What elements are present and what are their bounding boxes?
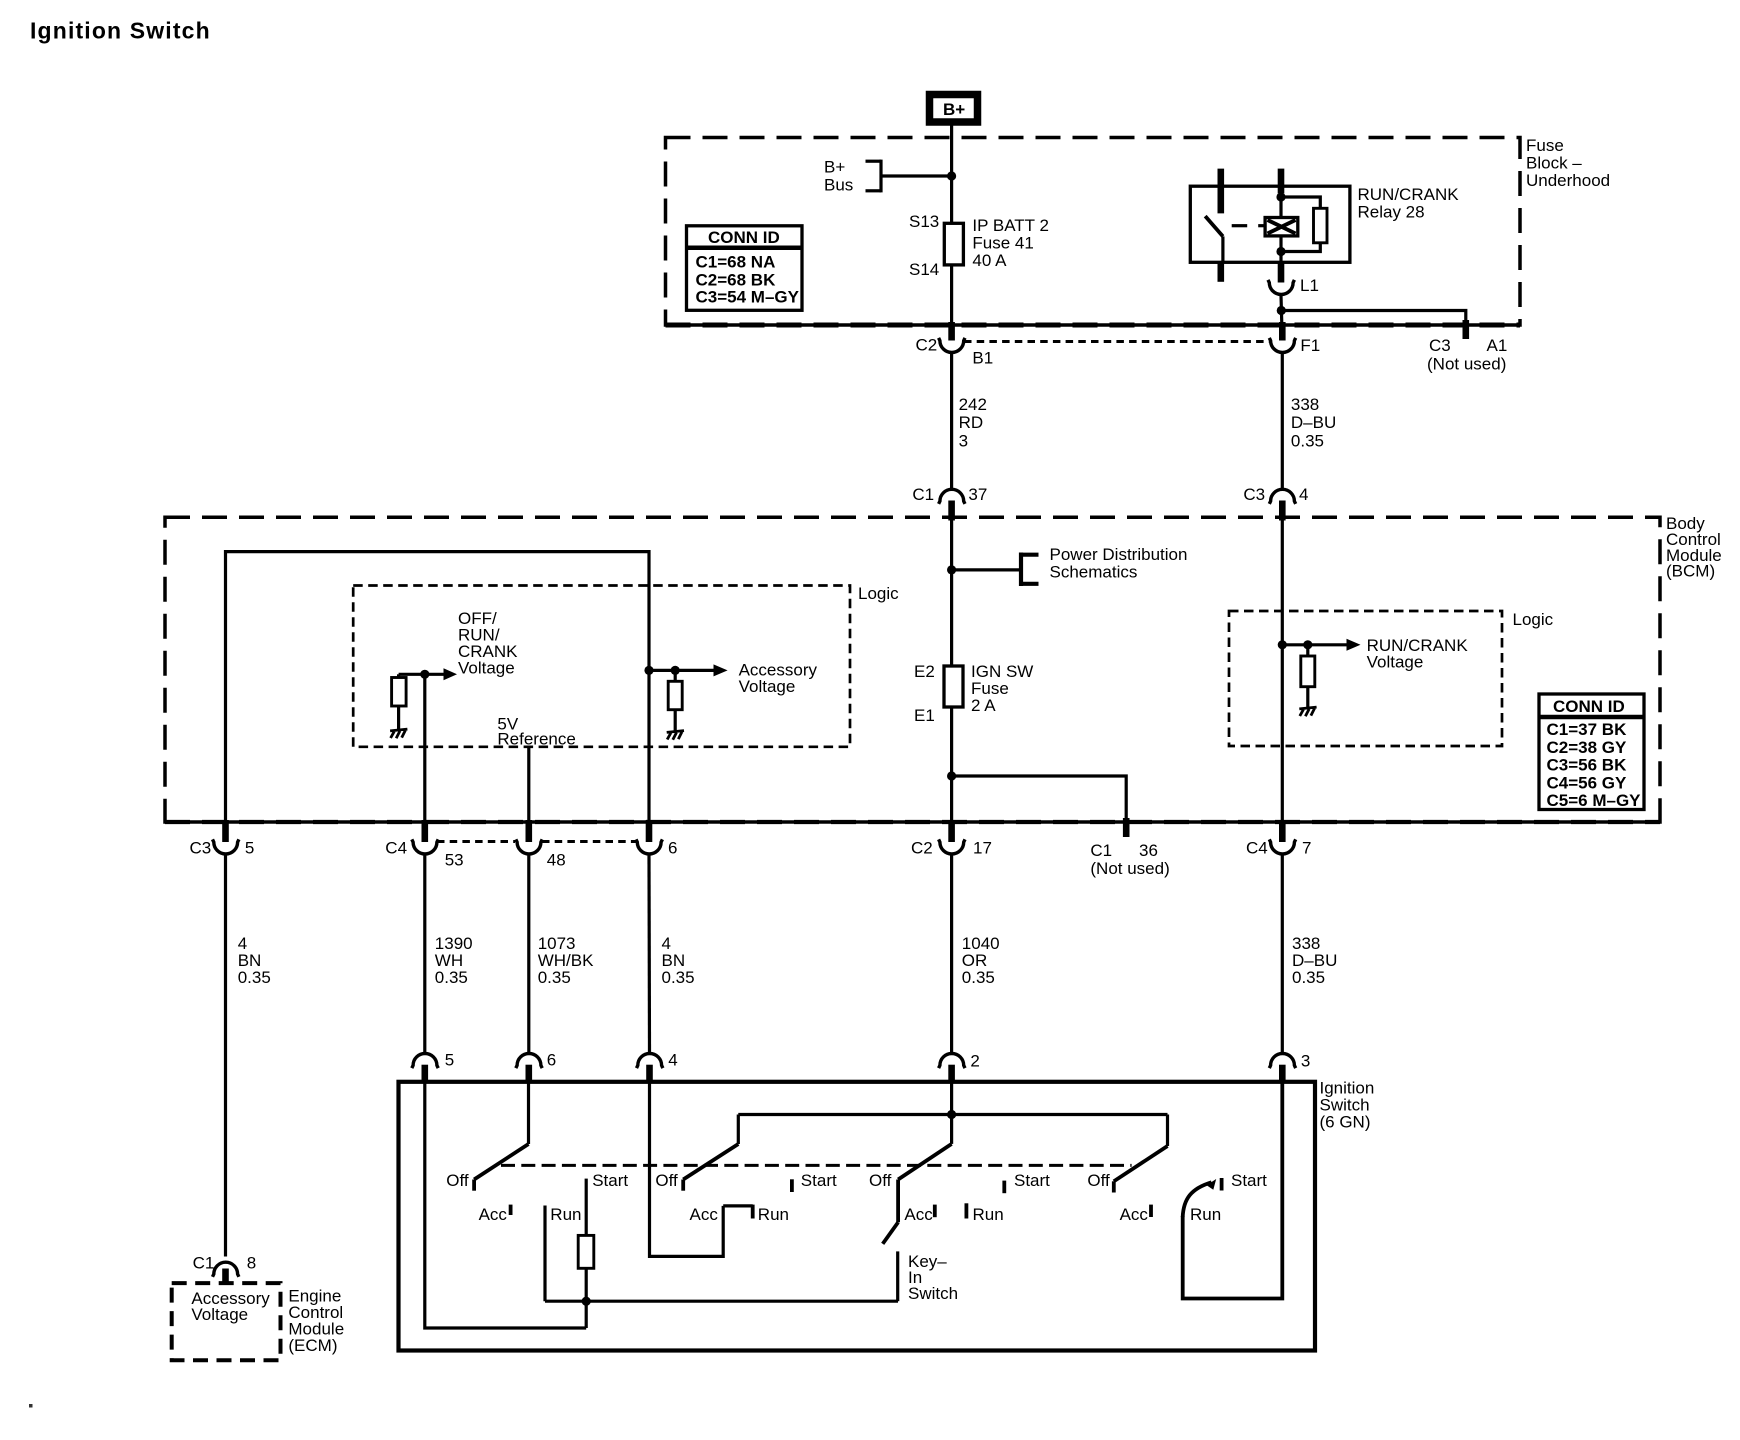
- svg-text:3: 3: [1301, 1052, 1310, 1071]
- wire B+ to fuse S13: [950, 122, 953, 223]
- wire acc2 to run2 jumper: [723, 1204, 753, 1207]
- wire coil top: [1279, 193, 1282, 217]
- connector L1: [1268, 280, 1294, 295]
- svg-text:6: 6: [668, 839, 677, 858]
- pin 6 stub: [646, 820, 653, 842]
- connector 6 dome: [516, 1054, 542, 1069]
- label 338 D-BU 0.35: [1291, 395, 1336, 451]
- svg-text:C2=38 GY: C2=38 GY: [1547, 738, 1628, 757]
- svg-text:Voltage: Voltage: [739, 677, 796, 696]
- svg-text:242: 242: [959, 395, 987, 414]
- connector 2 dome: [939, 1054, 965, 1069]
- svg-text:C2: C2: [916, 336, 938, 355]
- wire to power distribution bracket: [952, 568, 1021, 571]
- contact tick Start 3: [1002, 1181, 1006, 1194]
- svg-text:5: 5: [245, 839, 254, 858]
- wire fuse to C2 connector: [950, 265, 953, 324]
- svg-text:2 A: 2 A: [971, 696, 996, 715]
- power distribution bracket: [1021, 553, 1039, 587]
- relay switch blade: [1205, 216, 1223, 236]
- svg-text:B+: B+: [824, 158, 845, 177]
- svg-text:RD: RD: [959, 413, 984, 432]
- ground accessory: [667, 731, 684, 740]
- node run-crank resistor tap: [1303, 640, 1312, 649]
- svg-text:A1: A1: [1487, 336, 1508, 355]
- pin 8 stub: [222, 1269, 229, 1286]
- fuse F41 IP BATT 2 40A: [944, 223, 963, 265]
- pin C1-8 dome: [213, 1262, 239, 1277]
- svg-text:6: 6: [547, 1051, 556, 1070]
- svg-text:Run: Run: [973, 1205, 1004, 1224]
- connector 4 dome: [637, 1054, 663, 1069]
- connector F1 cup: [1269, 338, 1295, 353]
- svg-text:C4=56 GY: C4=56 GY: [1547, 773, 1628, 792]
- wire 1040 OR: [950, 855, 953, 1053]
- connector C2 cup: [939, 338, 965, 353]
- svg-text:F1: F1: [1300, 336, 1320, 355]
- svg-text:338: 338: [1291, 395, 1319, 414]
- label 338 D-BU 0.35: [1292, 934, 1337, 987]
- switch pivot tick 3: [896, 1180, 900, 1193]
- node A1 branch junction: [1277, 306, 1286, 315]
- label Accessory Voltage: [739, 661, 818, 697]
- body control module BCM box: [165, 517, 1660, 822]
- ground left logic: [390, 729, 407, 738]
- label C1 36 (Not used): [1090, 841, 1169, 878]
- svg-text:Off: Off: [446, 1171, 469, 1190]
- connector 3 dome: [1269, 1054, 1295, 1069]
- wire 242 RD C2 to C1: [950, 354, 953, 489]
- connector C3-5 cup: [213, 839, 239, 854]
- key-in switch lower terminal: [896, 1251, 899, 1301]
- svg-text:Start: Start: [592, 1171, 628, 1190]
- pin 5 stub: [421, 1065, 428, 1083]
- relay coil box: [1265, 218, 1298, 236]
- switch pivot tick 1: [472, 1180, 476, 1191]
- node power distribution junction: [947, 565, 956, 574]
- node run-crank junction: [1278, 640, 1287, 649]
- node sense tap junction: [420, 670, 429, 679]
- node coil bottom junction: [1276, 247, 1285, 256]
- svg-text:Fuse 41: Fuse 41: [972, 234, 1033, 253]
- wire pin5 feed: [425, 1083, 586, 1328]
- svg-text:(Not used): (Not used): [1090, 859, 1169, 878]
- svg-text:36: 36: [1139, 841, 1158, 860]
- conn id table left: [687, 226, 803, 310]
- contact tick Start 4: [1220, 1178, 1224, 1191]
- svg-text:C1: C1: [193, 1254, 215, 1273]
- svg-text:B1: B1: [972, 349, 993, 368]
- connector 5 dome: [412, 1054, 438, 1069]
- resistor pulldown run-crank: [1301, 645, 1315, 708]
- accessory voltage ECM box: [172, 1283, 281, 1360]
- wire branch to C1 36: [952, 776, 1127, 822]
- svg-text:C4: C4: [385, 839, 407, 858]
- inline connector dotted line C2 to F1: [964, 340, 1269, 343]
- svg-text:Start: Start: [1014, 1171, 1050, 1190]
- label C3 5: [190, 839, 255, 858]
- svg-text:CONN ID: CONN ID: [708, 228, 780, 247]
- pin C2-17 stub: [948, 820, 955, 842]
- label OFF/RUN/CRANK Voltage: [458, 609, 518, 678]
- svg-text:5: 5: [445, 1051, 454, 1070]
- wire off3 to key-in switch: [896, 1192, 900, 1222]
- svg-text:Voltage: Voltage: [1367, 653, 1424, 672]
- pin C4-53 stub: [421, 820, 428, 842]
- pin 4 stub: [646, 1065, 653, 1083]
- fuse block underhood box: [666, 138, 1521, 326]
- svg-text:C4: C4: [1246, 839, 1268, 858]
- label Body Control Module (BCM): [1666, 514, 1722, 581]
- arrow blade 5 tip: [1207, 1179, 1217, 1190]
- label 242 RD 3: [959, 395, 987, 451]
- wire coil bottom: [1279, 236, 1282, 262]
- wire 1390 WH: [423, 855, 426, 1053]
- svg-text:Fuse: Fuse: [1526, 136, 1564, 155]
- connector 48 cup: [516, 839, 542, 854]
- wire resistor to rail: [585, 1268, 588, 1328]
- node C1-36 branch junction: [947, 771, 956, 780]
- tiny page mark: [29, 1404, 33, 1408]
- pin A1 stub not used: [1463, 320, 1470, 339]
- logic box left: [353, 586, 850, 747]
- svg-text:40 A: 40 A: [972, 251, 1007, 270]
- switch position dashed line: [501, 1164, 1132, 1167]
- label C1 8: [193, 1254, 257, 1273]
- label 4 BN 0.35: [662, 934, 695, 987]
- wire C3-5 branch top run: [226, 552, 650, 824]
- svg-text:(Not used): (Not used): [1427, 355, 1506, 374]
- pin C2 male stub: [948, 322, 955, 341]
- svg-text:0.35: 0.35: [435, 968, 468, 987]
- label C4 53: [385, 839, 463, 870]
- wire 4 BN: [647, 855, 651, 1053]
- relay switch lower terminal: [1221, 236, 1224, 262]
- wire run-crank sense: [1282, 643, 1347, 646]
- resistor pulldown accessory: [668, 670, 682, 731]
- svg-text:Off: Off: [1087, 1171, 1110, 1190]
- pin 3 stub: [1279, 1065, 1286, 1083]
- switch pivot tick 4: [1112, 1181, 1116, 1192]
- inline dotted line 53-48-6: [437, 840, 636, 843]
- switch blade 2: [683, 1144, 738, 1180]
- svg-text:Switch: Switch: [908, 1284, 958, 1303]
- wire pin3 feed: [1183, 1083, 1283, 1299]
- arrow accessory: [714, 664, 728, 676]
- contact tick Run 2: [751, 1205, 755, 1219]
- svg-text:0.35: 0.35: [538, 968, 571, 987]
- svg-text:C5=6 M–GY: C5=6 M–GY: [1547, 791, 1642, 810]
- node rail junction: [582, 1297, 591, 1306]
- relay output pin: [1278, 262, 1285, 282]
- svg-text:C3=54 M–GY: C3=54 M–GY: [696, 288, 800, 307]
- relay switch top pin: [1218, 169, 1225, 214]
- svg-text:Off: Off: [655, 1171, 678, 1190]
- label 5V Reference: [497, 715, 575, 749]
- svg-text:Voltage: Voltage: [191, 1305, 248, 1324]
- pin 2 stub: [948, 1065, 955, 1083]
- node B+ bus junction: [947, 171, 956, 180]
- svg-text:0.35: 0.35: [1292, 968, 1325, 987]
- label RUN/CRANK Relay 28: [1358, 185, 1460, 222]
- label C3 4: [1243, 485, 1308, 504]
- resistor key-in chime: [578, 1235, 594, 1268]
- wire main ign feed inside BCM: [950, 521, 953, 667]
- label Ignition Switch (6 GN): [1320, 1079, 1375, 1132]
- node accessory junction: [644, 666, 653, 675]
- battery B+ symbol: [930, 95, 978, 123]
- pin F1 male stub: [1279, 322, 1286, 341]
- label 1073 WH/BK 0.35: [538, 934, 594, 987]
- connector C2-17 cup: [939, 839, 965, 854]
- pin 6 stub: [525, 1065, 532, 1083]
- wire B+ Bus branch: [866, 160, 952, 193]
- svg-text:0.35: 0.35: [238, 968, 271, 987]
- node accessory resistor tap: [671, 666, 680, 675]
- svg-text:E2: E2: [914, 662, 935, 681]
- contact tick Start 2: [790, 1179, 794, 1192]
- switch blade 5 curved: [1183, 1182, 1212, 1217]
- node bus pin2 junction: [947, 1110, 956, 1119]
- wire 5V reference to 48: [527, 747, 530, 824]
- svg-text:3: 3: [959, 432, 968, 451]
- label B+ Bus: [824, 158, 853, 195]
- label IGN SW Fuse 2 A: [971, 662, 1033, 715]
- svg-text:B+: B+: [943, 100, 965, 119]
- ignition switch box: [399, 1082, 1316, 1351]
- svg-text:4: 4: [668, 1051, 677, 1070]
- svg-text:17: 17: [973, 839, 992, 858]
- svg-text:Relay 28: Relay 28: [1358, 203, 1425, 222]
- svg-text:Bus: Bus: [824, 176, 853, 195]
- relay resistor loop: [1281, 197, 1327, 252]
- svg-text:S13: S13: [909, 212, 939, 231]
- wire accessory sense: [649, 669, 715, 672]
- label Power Distribution Schematics: [1050, 545, 1188, 582]
- svg-text:Schematics: Schematics: [1050, 563, 1138, 582]
- relay switch bottom pin: [1218, 262, 1225, 282]
- svg-text:Block –: Block –: [1526, 154, 1582, 173]
- fuse IGN SW 2A: [944, 666, 963, 707]
- pin 37 stub: [948, 501, 955, 521]
- label C1 37: [912, 485, 987, 504]
- svg-text:0.35: 0.35: [1291, 432, 1324, 451]
- wire pin2 down: [950, 1083, 953, 1144]
- relay actuator dashes: [1232, 224, 1265, 227]
- wire tap to C4 53: [423, 674, 426, 824]
- svg-text:RUN/CRANK: RUN/CRANK: [1358, 185, 1460, 204]
- svg-text:Run: Run: [1190, 1205, 1221, 1224]
- svg-text:7: 7: [1302, 839, 1311, 858]
- svg-text:4: 4: [1299, 485, 1308, 504]
- wire fuse to BCM bottom: [950, 707, 953, 824]
- wire start1 contact down: [585, 1179, 588, 1236]
- arrow off-run-crank: [444, 668, 458, 680]
- svg-text:(BCM): (BCM): [1666, 562, 1715, 581]
- resistor pulldown left: [392, 674, 407, 729]
- svg-text:Logic: Logic: [1513, 610, 1554, 629]
- connector C4-53 cup: [412, 839, 438, 854]
- svg-text:C1: C1: [1090, 841, 1112, 860]
- svg-text:C3: C3: [1429, 336, 1451, 355]
- svg-text:C1=68 NA: C1=68 NA: [696, 253, 776, 272]
- pin 4 stub: [1279, 501, 1286, 521]
- connector C3 dome into BCM: [1269, 489, 1295, 504]
- wire off-run-crank sense: [399, 673, 445, 676]
- logic box right: [1229, 611, 1502, 746]
- svg-text:Run: Run: [758, 1205, 789, 1224]
- label 4 BN 0.35: [238, 934, 271, 987]
- wire 338 D-BU lower: [1281, 855, 1284, 1053]
- svg-text:Acc: Acc: [479, 1205, 508, 1224]
- conn id table right: [1539, 694, 1644, 810]
- wire bus corner to blade4: [1166, 1115, 1169, 1147]
- node coil top junction: [1276, 192, 1285, 201]
- wire pin6 to blade1: [527, 1083, 530, 1144]
- svg-text:Run: Run: [550, 1205, 581, 1224]
- label 1040 OR 0.35: [962, 934, 1000, 987]
- svg-text:0.35: 0.35: [662, 968, 695, 987]
- wire 4 BN C3-5 to ECM: [224, 855, 227, 1257]
- svg-text:Acc: Acc: [1120, 1205, 1149, 1224]
- switch pivot tick 2: [681, 1180, 685, 1191]
- pin 36 stub not used: [1123, 818, 1130, 837]
- svg-text:8: 8: [247, 1254, 256, 1273]
- svg-text:Acc: Acc: [904, 1205, 933, 1224]
- svg-text:Off: Off: [869, 1171, 892, 1190]
- key-in switch blade: [883, 1222, 898, 1244]
- label Fuse Block - Underhood: [1526, 136, 1610, 190]
- svg-text:Acc: Acc: [690, 1205, 719, 1224]
- wire blade2 to bus: [737, 1115, 740, 1145]
- wire key-in rail: [545, 1300, 898, 1303]
- label Accessory Voltage: [191, 1289, 270, 1324]
- label C4 7: [1246, 839, 1311, 858]
- svg-text:C1: C1: [912, 485, 934, 504]
- svg-text:53: 53: [445, 851, 464, 870]
- svg-text:Reference: Reference: [497, 730, 575, 749]
- connector 6 cup: [636, 839, 662, 854]
- wire L1 down: [1279, 296, 1283, 325]
- svg-text:(ECM): (ECM): [288, 1336, 337, 1355]
- svg-text:S14: S14: [909, 260, 939, 279]
- wire main2 inside BCM: [1281, 521, 1284, 825]
- svg-text:48: 48: [547, 851, 566, 870]
- label Engine Control Module (ECM): [288, 1287, 344, 1356]
- switch blade 3: [898, 1144, 952, 1180]
- label Key-In Switch: [908, 1252, 958, 1303]
- pin C4-7 stub: [1279, 820, 1286, 842]
- svg-text:C1=37 BK: C1=37 BK: [1547, 720, 1628, 739]
- svg-text:37: 37: [968, 485, 987, 504]
- relay coil top pin: [1278, 169, 1285, 194]
- pin C3-5 stub: [222, 820, 229, 842]
- wire pin4 to acc2 contact: [650, 1083, 724, 1256]
- connector C4-7 cup: [1269, 839, 1295, 854]
- wire run1 contact down: [543, 1206, 546, 1302]
- svg-text:L1: L1: [1300, 276, 1319, 295]
- svg-text:C2: C2: [911, 839, 933, 858]
- label C3 A1 (Not used): [1427, 336, 1507, 374]
- arrow run-crank: [1347, 639, 1361, 651]
- svg-text:2: 2: [970, 1052, 979, 1071]
- contact tick Run 3: [965, 1203, 969, 1218]
- svg-text:Start: Start: [801, 1171, 837, 1190]
- svg-text:C3: C3: [190, 839, 212, 858]
- label IP BATT 2 Fuse 41 40 A: [972, 216, 1049, 270]
- contact tick Acc 4: [1149, 1205, 1153, 1217]
- label RUN/CRANK Voltage: [1367, 636, 1469, 672]
- pin 48 stub: [525, 820, 532, 842]
- wire branch to A1: [1281, 311, 1466, 323]
- ground run-crank: [1299, 707, 1316, 716]
- contact tick Acc 3: [933, 1205, 937, 1218]
- label C2 17: [911, 839, 992, 858]
- contact tick Acc 1: [509, 1205, 513, 1215]
- switch blade 1: [474, 1144, 528, 1180]
- connector C1 dome into BCM: [939, 489, 965, 504]
- svg-text:D–BU: D–BU: [1291, 413, 1336, 432]
- svg-text:Power Distribution: Power Distribution: [1050, 545, 1188, 564]
- svg-text:(6 GN): (6 GN): [1320, 1113, 1371, 1132]
- svg-text:Underhood: Underhood: [1526, 171, 1610, 190]
- relay K28 RUN/CRANK box: [1190, 186, 1350, 262]
- svg-text:Logic: Logic: [858, 584, 899, 603]
- wire 1073 WH/BK: [527, 855, 530, 1053]
- svg-text:Start: Start: [1231, 1171, 1267, 1190]
- wire 338 D-BU F1 to C3: [1281, 354, 1284, 489]
- svg-text:C3: C3: [1243, 485, 1265, 504]
- label 1390 WH 0.35: [435, 934, 473, 987]
- svg-text:Ignition Switch: Ignition Switch: [30, 18, 211, 44]
- svg-text:Voltage: Voltage: [458, 659, 515, 678]
- svg-text:IP BATT 2: IP BATT 2: [972, 216, 1049, 235]
- svg-text:0.35: 0.35: [962, 968, 995, 987]
- svg-text:E1: E1: [914, 706, 935, 725]
- svg-text:CONN ID: CONN ID: [1553, 697, 1625, 716]
- wire ignition bus: [738, 1113, 1167, 1116]
- switch blade 4: [1114, 1146, 1168, 1181]
- svg-text:C3=56 BK: C3=56 BK: [1547, 756, 1628, 775]
